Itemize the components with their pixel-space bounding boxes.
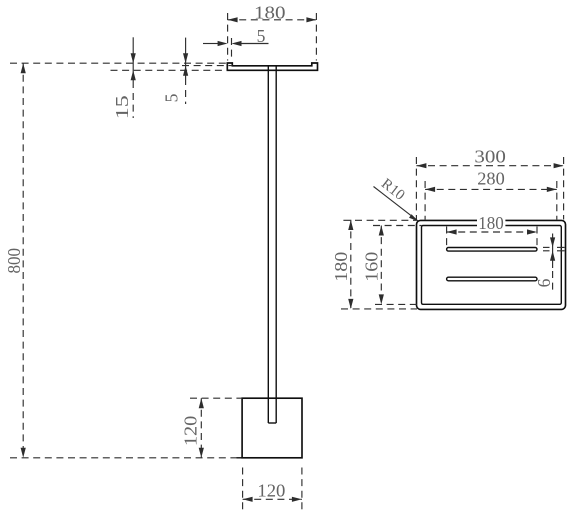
svg-text:280: 280 bbox=[477, 169, 505, 189]
svg-text:180: 180 bbox=[254, 2, 286, 22]
svg-text:160: 160 bbox=[362, 251, 382, 281]
svg-text:15: 15 bbox=[112, 95, 132, 119]
svg-text:300: 300 bbox=[474, 147, 506, 167]
svg-text:800: 800 bbox=[4, 248, 24, 274]
svg-text:120: 120 bbox=[181, 415, 201, 446]
svg-text:180: 180 bbox=[478, 213, 504, 233]
svg-text:6: 6 bbox=[534, 278, 554, 287]
svg-text:5: 5 bbox=[161, 93, 181, 102]
svg-text:5: 5 bbox=[257, 26, 266, 46]
svg-text:180: 180 bbox=[331, 251, 351, 281]
svg-text:120: 120 bbox=[257, 481, 285, 501]
